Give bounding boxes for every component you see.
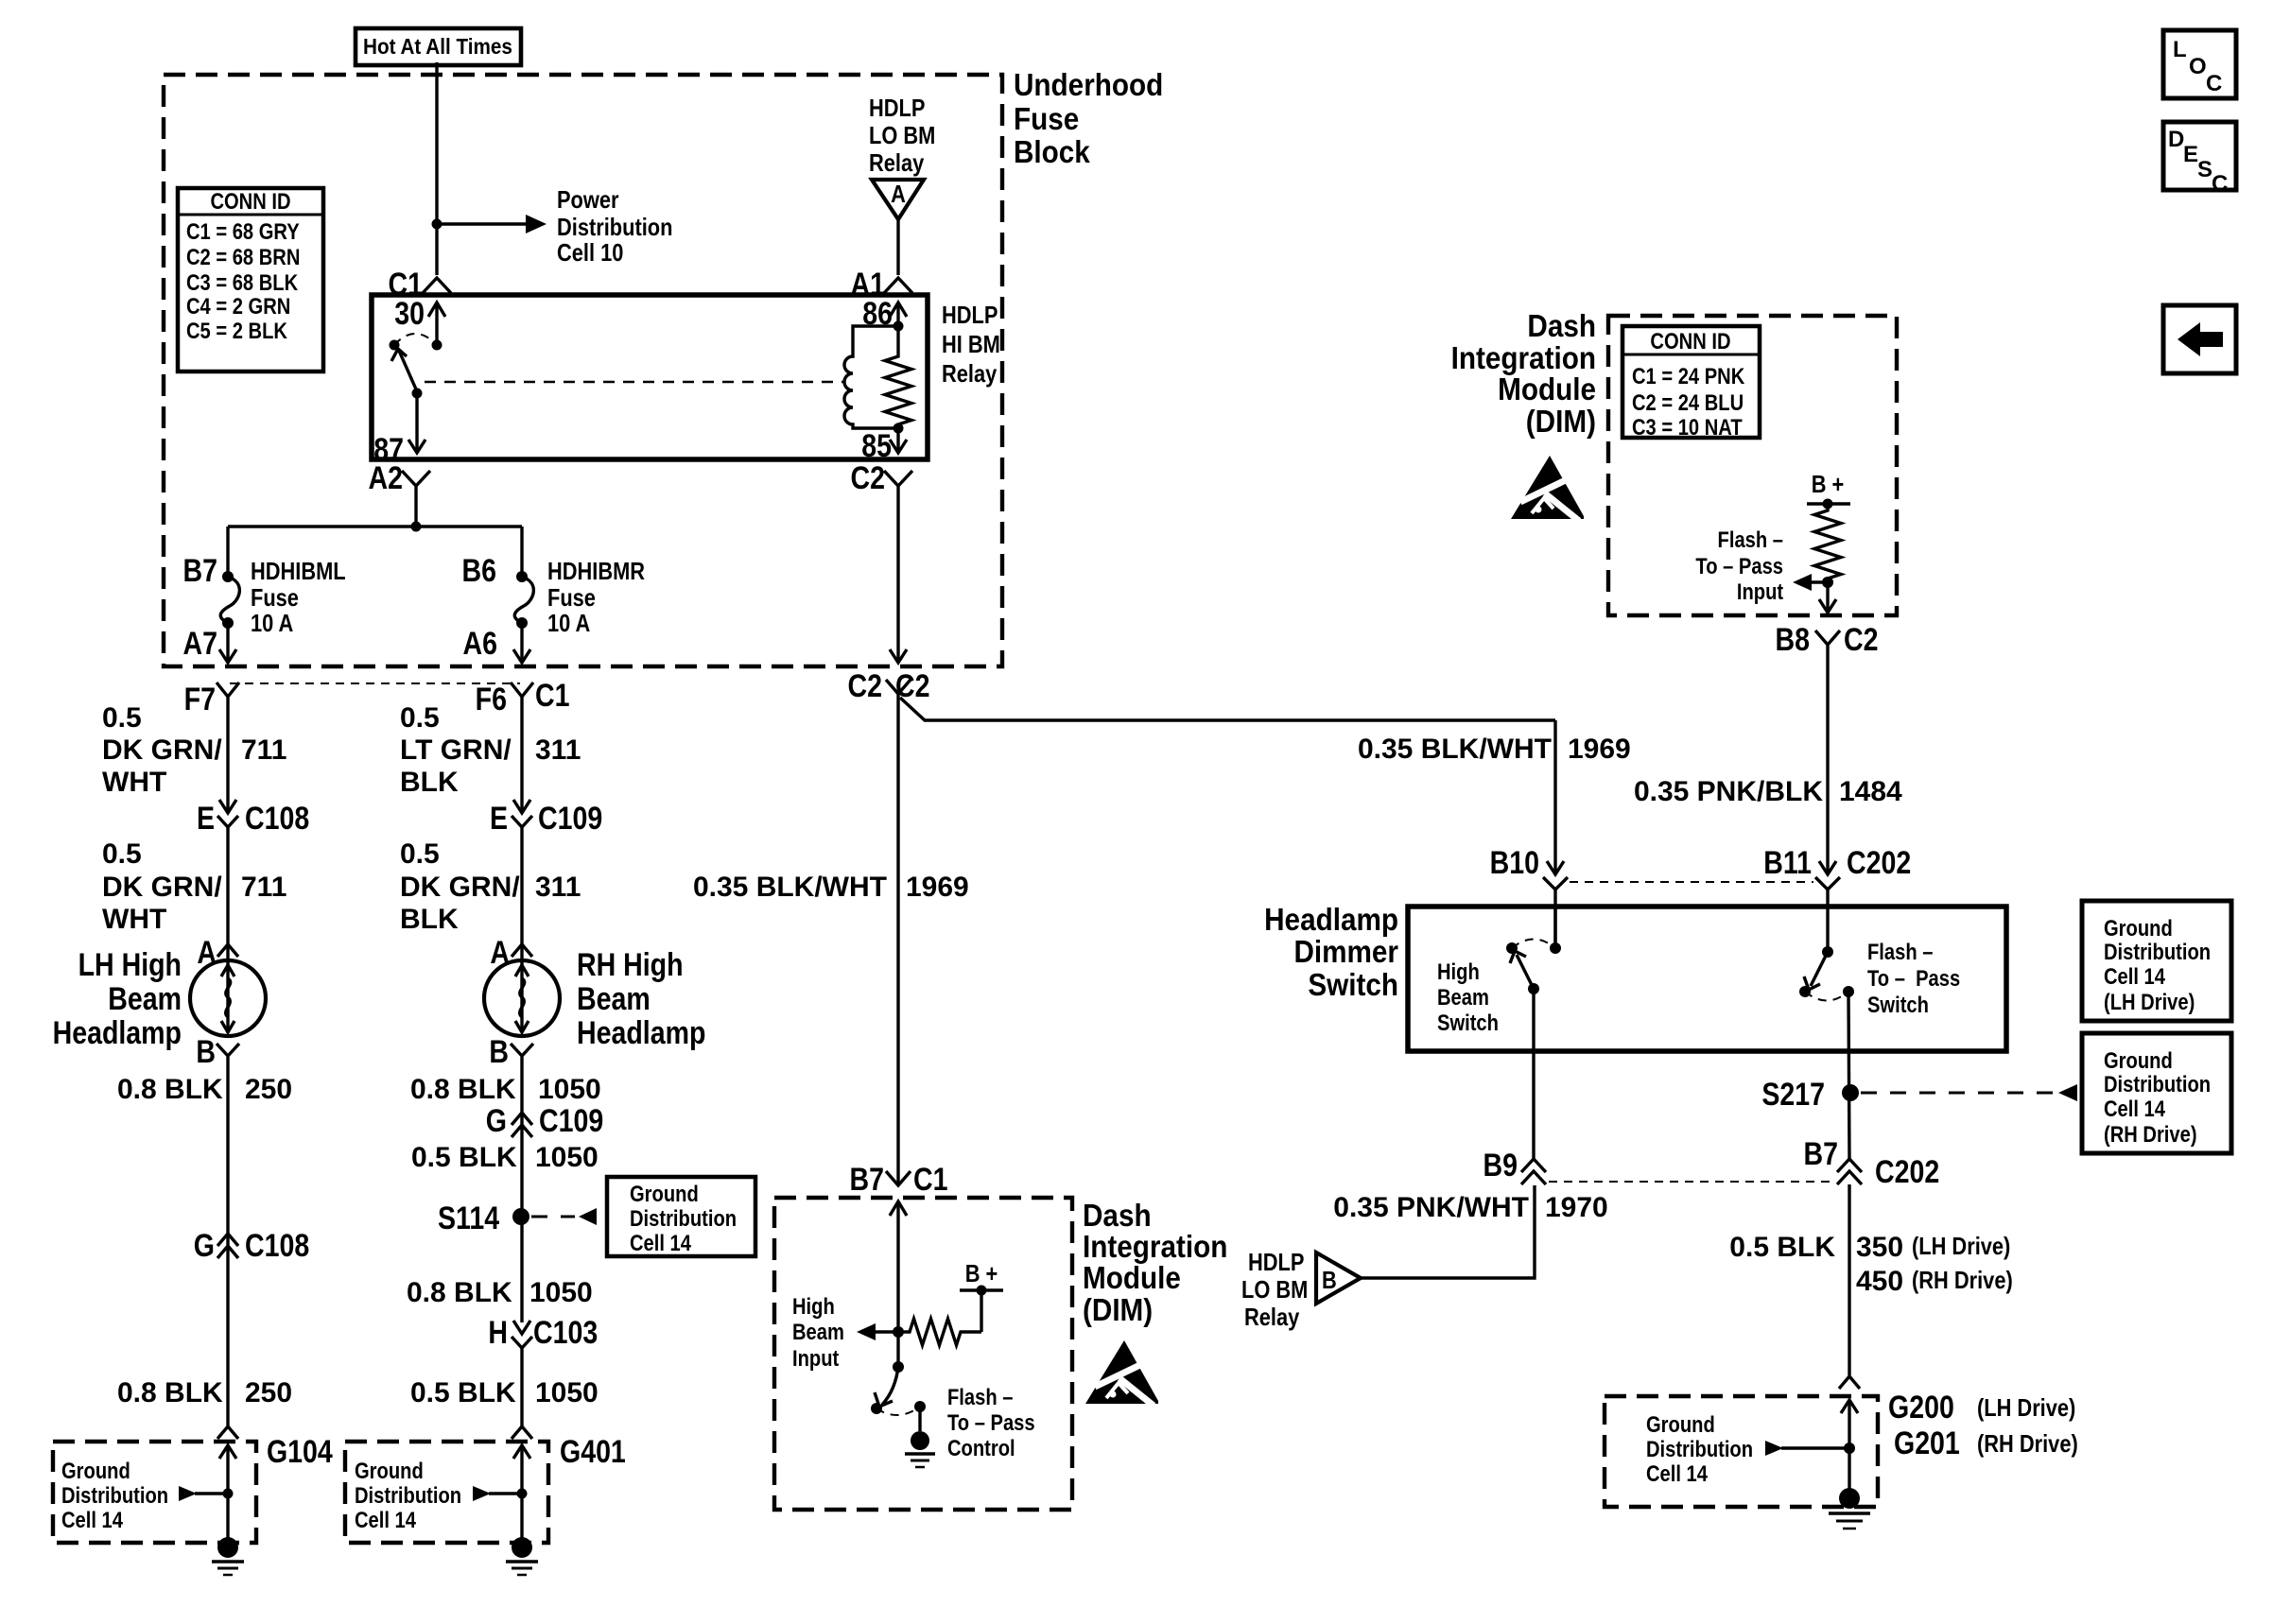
wire: junction down to FTP switch (896, 1332, 899, 1367)
wire: bus down to fuse HDHIBMR (520, 527, 523, 577)
wire: fuse to A6 exit arrow (513, 623, 530, 663)
svg-text:Integration: Integration (1451, 341, 1596, 376)
wire: C109 to S114 (520, 1138, 523, 1322)
wire: FTP contact to ground (918, 1407, 921, 1431)
wire label 0.5 DK GRN/WHT 711 (lower left) (102, 838, 286, 935)
svg-text:A7: A7 (183, 626, 217, 662)
LH High Beam Headlamp label (53, 947, 182, 1051)
svg-text:(LH Drive): (LH Drive) (1977, 1394, 2075, 1422)
Dash Integration Module dashed box (bottom) (774, 1198, 1072, 1510)
svg-text:311: 311 (535, 734, 581, 766)
svg-text:Switch: Switch (1867, 992, 1929, 1017)
splice S217 dot (1842, 1084, 1859, 1101)
svg-text:Cell 10: Cell 10 (557, 239, 623, 267)
fuse HDHIBML top dot B7 (222, 571, 234, 582)
arrow from Ground Distribution text (G104) (179, 1486, 228, 1501)
connector B7 C1 (Y) (886, 1171, 911, 1185)
wire: relay 87 down (408, 393, 425, 453)
relay contact 30 arrow up (428, 302, 445, 351)
connector H C103 (arrow + chevron) (512, 1321, 532, 1348)
svg-text:B: B (1322, 1267, 1337, 1294)
svg-text:DK GRN/: DK GRN/ (102, 872, 222, 903)
svg-text:Cell 14: Cell 14 (630, 1230, 692, 1255)
Ground Distribution Cell 14 text (G104) (61, 1458, 168, 1532)
wire: B7 down to G200/G201 (1848, 1184, 1850, 1375)
arrow from Ground Distribution text (G200) (1765, 1441, 1849, 1456)
svg-text:C1: C1 (913, 1162, 947, 1198)
ground symbol G104 (212, 1537, 244, 1575)
RH High Beam Headlamp (lamp symbol) (484, 960, 560, 1036)
svg-text:S114: S114 (438, 1201, 500, 1236)
svg-text:C3 = 10 NAT: C3 = 10 NAT (1632, 414, 1743, 440)
wire: hot feed down to relay C1 (435, 62, 438, 275)
fuse HDHIBMR name text (547, 558, 645, 637)
svg-text:B9: B9 (1484, 1148, 1518, 1183)
svg-text:(LH Drive): (LH Drive) (2104, 989, 2195, 1014)
svg-text:B10: B10 (1490, 845, 1539, 881)
svg-text:0.8 BLK: 0.8 BLK (117, 1074, 223, 1105)
high beam switch pivot dot (1528, 983, 1539, 994)
wire label 0.8 BLK 1050 (upper) (410, 1074, 601, 1105)
wire label 0.5 BLK 350/450 (1729, 1232, 2012, 1297)
svg-text:E: E (197, 801, 215, 837)
fuse HDHIBMR top dot B6 (516, 571, 528, 582)
svg-text:711: 711 (241, 734, 286, 766)
Flash-To-Pass Control text (947, 1384, 1035, 1460)
svg-text:Distribution: Distribution (1646, 1436, 1753, 1461)
junction dot (FTP input) (1822, 577, 1833, 588)
flash-to-pass switch dashed arc (1805, 992, 1848, 1001)
svg-text:C3 = 68 BLK: C3 = 68 BLK (186, 269, 298, 295)
junction dot (high beam input) (893, 1326, 904, 1338)
RH High Beam Headlamp label (577, 947, 705, 1051)
CONN ID table (DIM) (1622, 326, 1760, 440)
svg-text:311: 311 (535, 872, 581, 903)
wire: ground lead G104 (arrow up) (219, 1445, 236, 1547)
junction dot (G200) (1844, 1443, 1855, 1454)
svg-text:Fuse: Fuse (1014, 102, 1079, 137)
relay coil top dot (894, 321, 904, 332)
Ground Distribution Cell 14 box (S114) (607, 1177, 755, 1256)
svg-text:Fuse: Fuse (251, 584, 299, 612)
connector B (Y, RH lamp) (511, 1044, 533, 1063)
resistor (FTP pull-up, vertical) (1814, 504, 1841, 582)
connector B7 C202 (double chevron up) (1837, 1159, 1862, 1184)
svg-text:Ground: Ground (61, 1458, 130, 1483)
svg-text:To – Pass: To – Pass (947, 1409, 1035, 1435)
svg-text:85: 85 (861, 428, 892, 464)
connector C2/C2 at UBF edge (Y) (886, 680, 911, 694)
svg-text:A2: A2 (369, 460, 403, 496)
ground symbol G401 (506, 1537, 538, 1575)
svg-text:0.35 BLK/WHT: 0.35 BLK/WHT (1358, 734, 1552, 765)
relay movable arm (lever with arrowhead) (391, 349, 417, 391)
svg-text:C109: C109 (538, 801, 602, 837)
connector chevron above G104 (217, 1426, 238, 1439)
svg-text:C2: C2 (851, 460, 885, 496)
svg-text:0.35 BLK/WHT: 0.35 BLK/WHT (693, 872, 887, 903)
wire label 0.5 BLK 1050 (bottom) (410, 1377, 599, 1408)
svg-text:C1: C1 (535, 678, 569, 714)
CONN ID table (UBF) (178, 188, 323, 371)
FTP control contact dots (871, 1403, 882, 1414)
relay coil resistor (zigzag) (885, 326, 911, 428)
svg-text:Cell 14: Cell 14 (2104, 1096, 2166, 1121)
connector B (Y, LH lamp) (217, 1044, 239, 1063)
svg-text:C202: C202 (1875, 1154, 1939, 1190)
svg-text:C2 = 24 BLU: C2 = 24 BLU (1632, 389, 1744, 415)
svg-text:LH High: LH High (78, 947, 182, 983)
svg-text:B11: B11 (1763, 845, 1812, 881)
svg-text:Beam: Beam (108, 981, 182, 1017)
connector B11 (arrow + chevron) (1815, 861, 1840, 890)
off-page triangle A (HDLP LO BM Relay) (872, 180, 924, 219)
svg-text:Relay: Relay (1244, 1304, 1300, 1331)
svg-text:DK GRN/: DK GRN/ (400, 872, 520, 903)
wire label 0.35 BLK/WHT 1969 (center) (693, 872, 969, 903)
svg-text:C202: C202 (1847, 845, 1911, 881)
svg-text:250: 250 (245, 1377, 292, 1408)
svg-text:High: High (1437, 959, 1480, 984)
wire: into DIM (arrow up) (890, 1201, 907, 1332)
connector A2 (Y) (402, 471, 430, 493)
svg-text:Ground: Ground (2104, 1047, 2173, 1073)
wire label 0.35 BLK/WHT 1969 (right) (1358, 734, 1631, 765)
svg-text:1050: 1050 (535, 1142, 599, 1173)
wire: bus down to fuse HDHIBML (226, 527, 229, 577)
wire: triangle A to A1 (896, 219, 899, 275)
svg-text:Beam: Beam (792, 1319, 844, 1344)
relay coil (inductor) (844, 326, 898, 428)
svg-text:0.8 BLK: 0.8 BLK (407, 1277, 512, 1308)
svg-text:F6: F6 (476, 682, 507, 717)
wire: C109 to RH lamp (520, 827, 523, 964)
wire: C108 to LH lamp (226, 827, 229, 964)
svg-text:1969: 1969 (906, 872, 969, 903)
svg-text:Switch: Switch (1437, 1010, 1499, 1035)
Underhood Fuse Block dashed outline (164, 75, 1002, 666)
svg-text:HDHIBML: HDHIBML (251, 558, 346, 585)
svg-text:0.35 PNK/BLK: 0.35 PNK/BLK (1634, 776, 1823, 807)
svg-text:E: E (490, 801, 508, 837)
svg-text:B +: B + (965, 1260, 998, 1287)
svg-text:B: B (489, 1034, 509, 1070)
junction dot on hot feed (432, 219, 442, 230)
Flash-To-Pass Switch text (1867, 939, 1960, 1017)
svg-text:Dash: Dash (1527, 309, 1596, 344)
svg-text:G201: G201 (1894, 1425, 1960, 1461)
wire: branch down to B10 (1553, 720, 1556, 872)
Headlamp Dimmer Switch box (1408, 907, 2006, 1051)
ground symbol G200 (1829, 1488, 1870, 1529)
connector F6 (Y) (511, 682, 533, 703)
wire label 0.8 BLK 250 (lower) (117, 1377, 292, 1408)
svg-text:350: 350 (1856, 1232, 1903, 1263)
connector E C108 (arrow + chevron) (217, 800, 238, 827)
wire label 0.5 LT GRN/BLK 311 (400, 702, 581, 798)
svg-text:Headlamp: Headlamp (1264, 903, 1398, 938)
wire: B8 down to B11 (1826, 651, 1829, 872)
svg-text:C108: C108 (245, 1228, 309, 1264)
reference text: Power Distribution Cell 10 (557, 186, 672, 267)
svg-text:A: A (891, 181, 906, 208)
ground distribution dashed box (G401) (345, 1442, 548, 1543)
svg-text:G200: G200 (1888, 1390, 1954, 1425)
svg-text:Cell 14: Cell 14 (1646, 1460, 1709, 1486)
junction dot (G401) (517, 1489, 528, 1499)
Headlamp Dimmer Switch title (1264, 903, 1398, 1003)
svg-text:Distribution: Distribution (61, 1482, 168, 1508)
flash-to-pass switch contact dots (1799, 986, 1811, 997)
Ground Distribution Cell 14 (LH Drive) box (2082, 901, 2231, 1021)
wire label 0.8 BLK 1050 (below S114) (407, 1277, 593, 1308)
splice S114 dot (512, 1208, 529, 1225)
svg-text:B +: B + (1812, 471, 1845, 498)
svg-text:F7: F7 (184, 682, 216, 717)
svg-text:B7: B7 (183, 553, 217, 589)
svg-text:Underhood: Underhood (1014, 68, 1163, 103)
arrow: Flash-To-Pass Input (left) (1793, 574, 1828, 591)
svg-text:B7: B7 (1804, 1136, 1838, 1172)
svg-text:0.5: 0.5 (400, 702, 440, 734)
wire: ground lead G200 (arrow up) (1841, 1400, 1858, 1498)
svg-text:HDLP: HDLP (1248, 1249, 1304, 1276)
svg-text:Flash –: Flash – (1718, 527, 1783, 552)
svg-text:To – Pass: To – Pass (1695, 553, 1783, 579)
wire: B11 into dimmer switch (1826, 890, 1829, 952)
svg-text:BLK: BLK (400, 767, 459, 798)
svg-text:Hot At All Times: Hot At All Times (363, 34, 512, 59)
FTP control dashed arc (876, 1407, 920, 1415)
svg-text:10 A: 10 A (547, 610, 590, 637)
connector C1 chevron (423, 278, 451, 293)
high beam switch fixed contact dot (1506, 942, 1518, 954)
connector G C109 (double chevron up) (512, 1113, 532, 1137)
connector E C109 (arrow + chevron) (512, 800, 532, 827)
svg-text:C108: C108 (245, 801, 309, 837)
ESD symbol (DIM top right) (1511, 456, 1584, 521)
fuse HDHIBMR bottom dot (516, 617, 528, 629)
connector chevron above G200 (1839, 1376, 1860, 1389)
reference text: HDLP LO BM Relay (A) (869, 95, 935, 177)
wire label 0.8 BLK 250 (upper) (117, 1074, 292, 1105)
svg-text:Dimmer: Dimmer (1293, 935, 1398, 970)
svg-text:Dash: Dash (1083, 1199, 1152, 1234)
wire: B10 into dimmer switch (1553, 890, 1556, 948)
svg-text:C: C (2206, 71, 2222, 96)
svg-text:C2: C2 (848, 668, 882, 704)
ESD symbol (DIM bottom) (1085, 1340, 1158, 1406)
svg-text:C5 = 2 BLK: C5 = 2 BLK (186, 318, 287, 343)
svg-text:C2: C2 (1844, 622, 1878, 658)
svg-text:C: C (2212, 171, 2228, 197)
High Beam Switch text (1437, 959, 1499, 1035)
wire: A2 to fuse bus (414, 493, 417, 527)
wire: C103 to G401 (520, 1348, 523, 1427)
relay actuation dashed link (425, 381, 844, 384)
svg-text:0.5 BLK: 0.5 BLK (411, 1142, 517, 1173)
svg-text:(RH Drive): (RH Drive) (1912, 1267, 2013, 1294)
high beam switch lever (arrow up-left) (1510, 951, 1534, 989)
svg-text:C1 = 68 GRY: C1 = 68 GRY (186, 218, 300, 244)
svg-text:Integration: Integration (1083, 1230, 1227, 1265)
reference text: HDLP LO BM Relay (B) (1241, 1249, 1308, 1331)
svg-text:D: D (2168, 127, 2184, 152)
DESC corner box (2163, 122, 2236, 197)
junction dot fuse bus (411, 522, 422, 532)
svg-text:30: 30 (394, 296, 425, 332)
wire: B10 stub inside box (1553, 907, 1556, 948)
svg-text:Flash –: Flash – (947, 1384, 1013, 1409)
relay box (UBF internal) (372, 295, 928, 459)
flash-to-pass switch lever (arrow down-left) (1804, 952, 1828, 990)
svg-text:0.5 BLK: 0.5 BLK (410, 1377, 516, 1408)
fuse HDHIBMR element (514, 577, 533, 623)
relay dashed throw arc (394, 334, 437, 345)
svg-text:0.5: 0.5 (400, 838, 440, 870)
Dash Integration Module (DIM) title (top right) (1451, 309, 1596, 440)
svg-text:C2 = 68 BRN: C2 = 68 BRN (186, 244, 300, 269)
svg-text:Ground: Ground (1646, 1411, 1715, 1437)
svg-text:BLK: BLK (400, 904, 459, 935)
svg-text:E: E (2183, 142, 2198, 167)
svg-text:(DIM): (DIM) (1526, 405, 1596, 440)
flash-to-pass switch wire end dot (1822, 946, 1833, 958)
svg-text:L: L (2173, 37, 2187, 62)
svg-text:G: G (194, 1228, 215, 1264)
connector chevron above G401 (512, 1426, 532, 1439)
svg-text:1969: 1969 (1568, 734, 1631, 765)
svg-text:S217: S217 (1761, 1077, 1825, 1113)
wire: flash-to-pass switch down to S217 (1848, 992, 1849, 1159)
svg-text:Distribution: Distribution (630, 1205, 737, 1231)
ground distribution dashed box (G104) (53, 1442, 256, 1543)
wire: fuse to A7 exit arrow (219, 623, 236, 663)
Dash Integration Module dashed box (top right) (1608, 316, 1897, 615)
relay coil feed arrow up (86) (890, 302, 907, 326)
fuse HDHIBML bottom dot (222, 617, 234, 629)
wire: F6 to C109 (520, 703, 523, 812)
FTP control pivot dot (893, 1361, 904, 1373)
Ground Distribution Cell 14 text (G200) (1646, 1411, 1753, 1486)
wire: C2 down to UBF edge (890, 493, 907, 663)
arrow from Ground Distribution text (G401) (473, 1486, 522, 1501)
fuse HDHIBML element (220, 577, 239, 623)
connector G C108 (double chevron up) (217, 1234, 238, 1258)
svg-text:HDHIBMR: HDHIBMR (547, 558, 645, 585)
svg-text:Module: Module (1083, 1261, 1181, 1296)
off-page triangle B (HDLP LO BM Relay) (1316, 1253, 1361, 1304)
svg-text:0.8 BLK: 0.8 BLK (117, 1377, 223, 1408)
wire label 0.5 DK GRN/BLK 311 (400, 838, 581, 935)
svg-text:WHT: WHT (102, 904, 166, 935)
svg-text:CONN ID: CONN ID (210, 188, 290, 214)
svg-text:0.5: 0.5 (102, 838, 142, 870)
connector C1 pair dashed line (F7-F6) (230, 682, 520, 684)
wire: LH lamp to C108 G (226, 1063, 229, 1259)
svg-text:O: O (2189, 54, 2207, 79)
svg-text:Input: Input (1737, 579, 1784, 604)
junction dot (G104) (223, 1489, 234, 1499)
relay coil bottom dot (894, 423, 904, 434)
resistor (DIM pull-up) (898, 1319, 981, 1345)
svg-text:B: B (196, 1034, 216, 1070)
Ground Distribution Cell 14 text (G401) (355, 1458, 461, 1532)
svg-text:B8: B8 (1776, 622, 1810, 658)
svg-text:CONN ID: CONN ID (1650, 328, 1730, 354)
connector A1 chevron (884, 278, 912, 293)
relay arm pivot dot (412, 389, 423, 399)
svg-text:Power: Power (557, 186, 619, 214)
ground symbol (DIM internal) (905, 1431, 935, 1467)
Flash-To-Pass Input text (1695, 527, 1783, 604)
svg-text:0.8 BLK: 0.8 BLK (410, 1074, 516, 1105)
svg-text:LO BM: LO BM (1241, 1276, 1308, 1304)
svg-text:RH High: RH High (577, 947, 684, 983)
svg-text:G104: G104 (267, 1434, 333, 1470)
svg-text:Ground: Ground (355, 1458, 424, 1483)
Dash Integration Module (DIM) title (bottom) (1083, 1199, 1227, 1328)
svg-text:10 A: 10 A (251, 610, 293, 637)
connector F7 (Y) (217, 682, 239, 703)
svg-text:Block: Block (1014, 135, 1090, 170)
connector B10 (arrow + chevron) (1543, 861, 1568, 890)
svg-text:(RH Drive): (RH Drive) (2104, 1121, 2197, 1147)
Underhood Fuse Block title (1014, 68, 1163, 170)
svg-text:Input: Input (792, 1345, 840, 1371)
LOC corner box (2163, 30, 2236, 98)
relay fixed contact dot (390, 340, 400, 351)
B+ feed (DIM top) (1807, 471, 1850, 509)
wire: FTP input down to DIM edge (arrow down) (1819, 582, 1836, 613)
svg-text:C4 = 2 GRN: C4 = 2 GRN (186, 293, 290, 319)
svg-text:Control: Control (947, 1435, 1015, 1460)
arrow to Power Distribution Cell 10 (437, 215, 547, 233)
svg-text:C103: C103 (533, 1315, 598, 1351)
svg-text:1050: 1050 (529, 1277, 593, 1308)
svg-text:LT GRN/: LT GRN/ (400, 734, 512, 766)
svg-text:Ground: Ground (2104, 915, 2173, 941)
Ground Distribution Cell 14 (RH Drive) box (2082, 1033, 2231, 1153)
wire: ground lead G401 (arrow up) (513, 1445, 530, 1547)
fuse HDHIBML name text (251, 558, 346, 637)
svg-text:Ground: Ground (630, 1181, 699, 1206)
svg-text:1050: 1050 (538, 1074, 601, 1105)
connector A chevron (LH lamp) (217, 944, 238, 957)
svg-text:High: High (792, 1293, 835, 1319)
svg-text:H: H (488, 1315, 508, 1351)
wire label 0.35 PNK/BLK 1484 (1634, 776, 1902, 807)
LH High Beam Headlamp (lamp symbol) (190, 960, 266, 1036)
connector A chevron (RH lamp) (512, 944, 532, 957)
svg-text:0.35 PNK/WHT: 0.35 PNK/WHT (1333, 1192, 1529, 1223)
svg-text:Headlamp: Headlamp (53, 1015, 182, 1051)
svg-text:(RH Drive): (RH Drive) (1977, 1430, 2078, 1458)
dashed reference line from S217 (1861, 1092, 2056, 1095)
wire: high beam switch down to B9 (1532, 989, 1535, 1159)
svg-text:1970: 1970 (1545, 1192, 1608, 1223)
wire label 0.5 BLK 1050 (411, 1142, 599, 1173)
wire: RH lamp to C109 G (520, 1063, 523, 1138)
svg-text:S: S (2197, 157, 2212, 182)
svg-text:WHT: WHT (102, 767, 166, 798)
svg-text:HI BM: HI BM (942, 331, 1000, 358)
svg-text:Switch: Switch (1308, 968, 1398, 1003)
connector C202 pair dashed line (B10-B11) (1570, 881, 1813, 883)
svg-text:C1 = 24 PNK: C1 = 24 PNK (1632, 363, 1744, 389)
connector B9 (double chevron up) (1521, 1159, 1546, 1184)
wire: coil to 85 exit arrow (890, 428, 907, 453)
